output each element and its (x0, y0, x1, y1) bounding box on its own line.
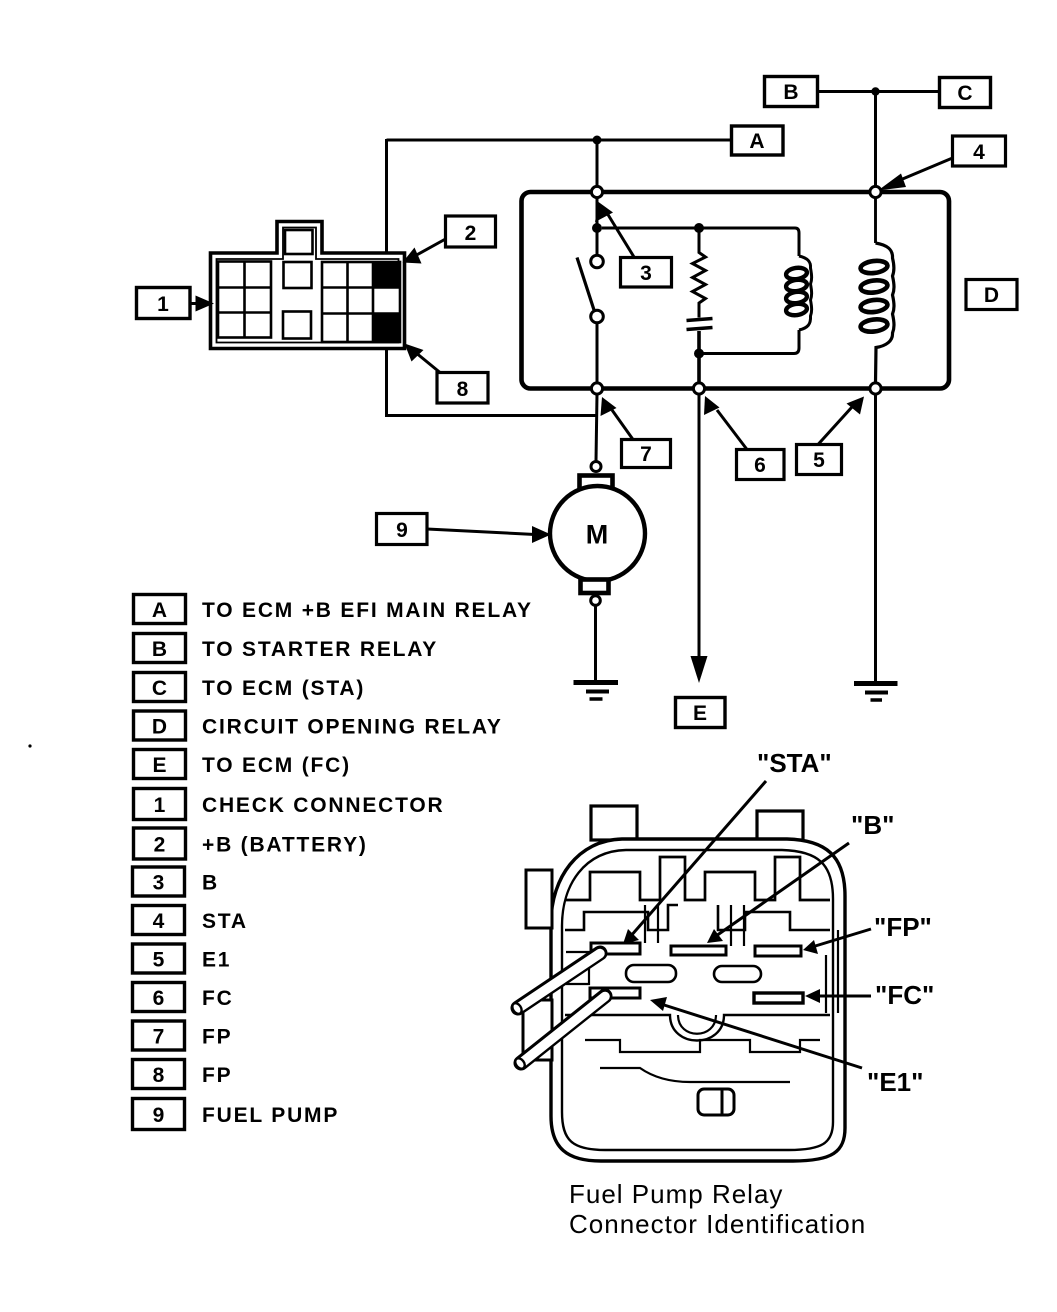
node B terminal (591, 186, 602, 197)
svg-text:9: 9 (396, 519, 408, 542)
wire B drop to relay (596, 140, 599, 186)
svg-text:FUEL PUMP: FUEL PUMP (202, 1104, 339, 1127)
node FP terminal (591, 383, 602, 394)
label box 2 (403, 216, 496, 264)
svg-text:E: E (152, 754, 166, 777)
wire inner loop bottom (699, 330, 799, 354)
svg-text:A: A (749, 130, 764, 153)
label box 1 (137, 288, 215, 319)
resistor R1 (693, 228, 706, 318)
svg-text:D: D (984, 284, 999, 307)
svg-text:TO STARTER RELAY: TO STARTER RELAY (202, 638, 438, 661)
label E1 quote (650, 997, 923, 1097)
connector slot E1 (590, 988, 640, 998)
inductor L2 hold coil (785, 256, 811, 330)
wire STA drop (874, 92, 877, 189)
label box 5 (797, 397, 865, 475)
label box 6 (704, 396, 784, 480)
wire B-C bus (818, 90, 940, 93)
svg-text:D: D (152, 716, 167, 739)
label box 9 (377, 514, 552, 545)
svg-text:7: 7 (153, 1026, 165, 1049)
svg-text:M: M (586, 520, 609, 550)
legend E (134, 750, 351, 779)
probe 2 (513, 996, 605, 1071)
legend D (134, 711, 503, 740)
label box D (966, 280, 1017, 310)
junction switch-B node (592, 223, 602, 233)
svg-text:3: 3 (153, 872, 165, 895)
svg-text:9: 9 (153, 1104, 165, 1127)
legend 3 (133, 867, 219, 896)
svg-text:5: 5 (813, 449, 825, 472)
svg-text:"FP": "FP" (874, 912, 932, 942)
legend 1 (134, 789, 445, 820)
svg-text:6: 6 (754, 454, 766, 477)
label FC quote (805, 980, 934, 1010)
connector slot STA (591, 943, 640, 954)
svg-text:B: B (152, 638, 167, 661)
legend 9 (133, 1099, 340, 1130)
relay U1 circuit opening relay body (522, 192, 950, 389)
svg-text:2: 2 (154, 834, 166, 857)
svg-text:"STA": "STA" (757, 748, 832, 778)
terminal 8 black cell (373, 314, 400, 343)
check connector CN1 body (211, 222, 405, 349)
terminal box B (765, 77, 818, 107)
capacitor C1 (687, 319, 713, 384)
connector bottom key detail (698, 1089, 734, 1115)
wire E1 to ground (874, 394, 877, 682)
svg-text:TO ECM +B EFI MAIN RELAY: TO ECM +B EFI MAIN RELAY (202, 599, 533, 622)
probe 1 (510, 953, 600, 1016)
junction B-C (871, 87, 879, 95)
label FP quote (803, 912, 932, 954)
svg-text:8: 8 (457, 378, 469, 401)
junction capacitor bottom (694, 349, 704, 359)
ground E1 (854, 684, 898, 701)
svg-text:FC: FC (202, 987, 234, 1010)
ground motor (574, 683, 619, 700)
label box 8 (405, 344, 489, 404)
legend A (134, 595, 533, 624)
svg-text:TO ECM (STA): TO ECM (STA) (202, 677, 365, 700)
svg-text:6: 6 (153, 987, 165, 1010)
legend B (134, 634, 439, 663)
label box 3 (595, 202, 672, 287)
wire +B left loop (387, 139, 598, 416)
svg-text:4: 4 (973, 141, 985, 164)
legend 8 (133, 1060, 233, 1089)
connector slot FP (755, 946, 801, 956)
svg-text:"B": "B" (851, 810, 894, 840)
svg-text:1: 1 (157, 293, 169, 316)
wire inner loop top (602, 228, 799, 256)
node STA terminal (870, 186, 881, 197)
arrowhead FC (691, 656, 708, 683)
label box E (676, 698, 726, 728)
svg-text:"FC": "FC" (875, 980, 934, 1010)
svg-text:Connector Identification: Connector Identification (569, 1209, 866, 1239)
svg-text:7: 7 (640, 443, 652, 466)
svg-text:E1: E1 (202, 949, 231, 972)
svg-text:B: B (202, 872, 219, 895)
svg-text:2: 2 (465, 222, 477, 245)
connector slot FC (754, 993, 803, 1003)
node FC terminal (693, 383, 704, 394)
label B quote (707, 810, 894, 943)
svg-text:+B (BATTERY): +B (BATTERY) (202, 834, 368, 857)
svg-text:4: 4 (153, 910, 165, 933)
svg-text:C: C (957, 82, 972, 105)
stray scan dot (28, 744, 31, 747)
label STA (623, 748, 832, 944)
node E1 terminal (870, 383, 881, 394)
svg-text:A: A (152, 599, 167, 622)
svg-text:1: 1 (154, 794, 166, 817)
svg-text:STA: STA (202, 910, 248, 933)
svg-text:E: E (693, 702, 707, 725)
switch S1 (577, 197, 603, 383)
svg-text:Fuel Pump Relay: Fuel Pump Relay (569, 1179, 783, 1209)
junction +B bus (593, 136, 602, 145)
svg-text:5: 5 (153, 949, 165, 972)
inductor L1 pull-in coil (860, 198, 894, 384)
svg-text:FP: FP (202, 1026, 232, 1049)
fuel pump relay connector body (523, 806, 845, 1161)
legend C (134, 673, 366, 702)
svg-text:CHECK CONNECTOR: CHECK CONNECTOR (202, 794, 444, 817)
terminal 2 black cell (373, 262, 400, 288)
terminal box C (940, 78, 991, 108)
label box 4 (878, 136, 1006, 191)
connector oval 2 (714, 966, 761, 982)
legend 5 (133, 944, 232, 973)
svg-text:3: 3 (640, 262, 652, 285)
connector slot B (671, 946, 726, 955)
label box 7 (601, 397, 671, 468)
svg-text:B: B (783, 81, 798, 104)
wire FC to ECM (698, 394, 701, 660)
legend 7 (133, 1021, 233, 1050)
wire +B bus to A (387, 139, 732, 142)
terminal box A (732, 126, 784, 155)
svg-text:8: 8 (153, 1064, 165, 1087)
junction resistor top (694, 223, 704, 233)
caption (569, 1179, 866, 1239)
legend 2 (134, 828, 368, 859)
svg-text:CIRCUIT OPENING RELAY: CIRCUIT OPENING RELAY (202, 716, 503, 739)
connector oval 1 (626, 965, 676, 982)
svg-text:FP: FP (202, 1064, 232, 1087)
legend 6 (133, 983, 234, 1012)
motor M1 fuel pump (550, 462, 645, 682)
svg-text:"E1": "E1" (867, 1067, 923, 1097)
svg-text:C: C (152, 677, 167, 700)
legend 4 (133, 906, 248, 935)
wire FP to motor (596, 394, 597, 461)
svg-text:TO ECM (FC): TO ECM (FC) (202, 754, 351, 777)
